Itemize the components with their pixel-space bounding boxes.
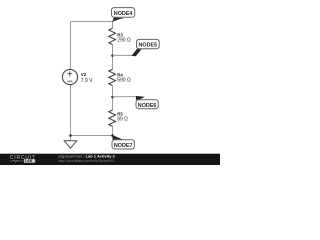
node NODE4 flag pointer bbox=[112, 17, 124, 22]
wire left vertical upper (top corner to V2 plus terminal) bbox=[70, 22, 72, 70]
junction node A (R3/R4) bbox=[111, 54, 114, 57]
node NODE5 flag pointer bbox=[113, 54, 135, 56]
svg-text:590 Ω: 590 Ω bbox=[117, 78, 131, 84]
svg-text:NODE6: NODE6 bbox=[138, 103, 157, 109]
node NODE7 flag pointer bbox=[112, 135, 124, 140]
node NODE4 label box bbox=[112, 8, 135, 18]
voltage source V2 bbox=[62, 69, 77, 84]
node NODE7 label box bbox=[112, 140, 134, 149]
svg-text:LAB: LAB bbox=[25, 159, 33, 163]
resistor R4 bbox=[112, 56, 114, 98]
node NODE6 flag pointer bbox=[113, 96, 140, 98]
footer black bar bbox=[0, 154, 220, 165]
svg-text:89 Ω: 89 Ω bbox=[117, 117, 128, 123]
resistor R3 bbox=[112, 22, 114, 56]
CircuitLab logo waveform bbox=[10, 160, 24, 162]
node NODE6 label box bbox=[136, 100, 158, 109]
svg-text:NODE4: NODE4 bbox=[114, 11, 133, 17]
svg-text:7.9 V: 7.9 V bbox=[81, 78, 93, 84]
svg-text:NODE5: NODE5 bbox=[139, 43, 158, 49]
CircuitLab logo LAB box bbox=[24, 159, 35, 163]
junction node B (R4/R5) bbox=[111, 96, 114, 99]
V2 plus sign bbox=[67, 71, 72, 76]
svg-text:NODE7: NODE7 bbox=[114, 143, 133, 149]
junction node C (R5/bottom wire) bbox=[111, 134, 114, 137]
svg-text:http://circuitlab.com/c/9c3k4e: http://circuitlab.com/c/9c3k4e9r92 bbox=[58, 159, 115, 163]
wire top horizontal from V2 branch to resistor chain bbox=[71, 21, 113, 23]
node NODE5 label box bbox=[137, 39, 160, 48]
ground symbol bbox=[70, 136, 72, 141]
svg-text:290 Ω: 290 Ω bbox=[117, 38, 131, 44]
svg-text:V2: V2 bbox=[81, 72, 87, 77]
wire left vertical lower (V2 minus terminal to bottom node) bbox=[70, 85, 72, 136]
resistor R5 bbox=[112, 97, 114, 136]
wire bottom horizontal to resistor chain bbox=[71, 135, 113, 137]
junction node D (V2/ground) bbox=[69, 134, 72, 137]
V2 minus sign bbox=[67, 80, 72, 82]
